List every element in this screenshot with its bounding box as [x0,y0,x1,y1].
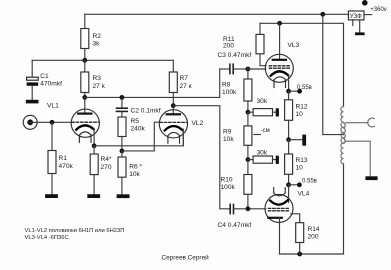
node top rail to output transformer center tap [320,12,325,17]
svg-text:200: 200 [308,234,319,241]
label 30k upper [257,98,268,105]
svg-text:R6 *: R6 * [129,164,142,171]
wire VL2 anode to C4 [173,106,230,209]
resistor R6 [118,151,126,194]
node VL2 anode / R7 [171,103,176,108]
svg-text:VL2: VL2 [192,120,204,127]
resistor R4 [90,146,98,194]
label 0.55v top [297,85,312,91]
label R2 3k [93,33,102,48]
svg-text:VL3-VL4 -6П36С: VL3-VL4 -6П36С [25,235,69,241]
label R12 10 [296,104,308,119]
wire top B+ rail [85,13,349,15]
svg-text:10: 10 [296,165,304,172]
wire 0.55v test point top [289,90,300,92]
svg-text:0.55в: 0.55в [297,85,312,91]
svg-text:VL1: VL1 [47,103,59,110]
resistor 30k lower (horizontal) [248,156,276,163]
label VL1 [47,103,59,110]
svg-text:C4 0.47mkf: C4 0.47mkf [218,222,252,229]
svg-text:200: 200 [223,43,234,50]
capacitor C2 [117,97,128,117]
svg-text:R8: R8 [222,82,231,89]
label +360v [370,7,387,13]
label R4* 270 [101,156,112,171]
label 30k lower [257,150,268,157]
resistor R14 [291,214,304,254]
label R14 200 [308,226,320,241]
label R9 10k [223,129,234,144]
note tube types [25,228,125,241]
svg-text:27 к: 27 к [180,83,192,90]
node VL4 cathode [286,182,291,187]
ground bar right of R12/R13 node [302,135,306,146]
svg-text:-см: -см [261,128,270,134]
ground below R4 [87,194,100,198]
node R12/R13 ground point [286,137,291,142]
svg-text:100k: 100k [221,184,236,191]
input jack X1 [23,115,37,129]
svg-text:30k: 30k [257,150,268,157]
label C1 470mkf [40,73,62,88]
svg-text:R12: R12 [296,104,308,111]
svg-text:R7: R7 [180,75,189,82]
svg-text:R9: R9 [223,129,232,136]
pentode VL3 [265,23,293,91]
label R13 10 [296,157,308,172]
label C2 0.1mkf [131,108,161,115]
node C4 / R10 / VL4 grid [246,206,251,211]
svg-text:VL3: VL3 [288,42,300,49]
label R3 27k [93,75,106,90]
triode VL2 [159,106,187,146]
label 0.55v bottom [302,179,317,185]
ground below C1 [26,100,39,104]
power filter box UZF [348,11,364,32]
capacitor C1 (electrolytic) [27,60,39,100]
ground below R6 [117,194,130,198]
resistor R8 [244,69,252,112]
svg-text:Сергеев Сергей: Сергеев Сергей [162,254,210,262]
label UZF [350,13,362,20]
svg-text:C1: C1 [40,73,49,80]
wire secondary bottom to ground [345,141,370,176]
resistor R2 [81,14,89,60]
svg-text:30k: 30k [257,98,268,105]
note author [162,254,210,262]
svg-text:R1: R1 [59,155,68,162]
svg-text:10: 10 [296,111,304,118]
svg-text:27 k: 27 k [93,83,106,90]
ground bar right of 30k lower [276,156,279,164]
svg-text:C2 0.1mkf: C2 0.1mkf [131,108,161,115]
resistor R12 [285,91,293,140]
svg-text:R4*: R4* [101,156,112,163]
svg-text:240k: 240k [131,126,146,133]
label R8 100k [222,82,237,97]
svg-text:C3 0.47mkf: C3 0.47mkf [218,52,252,59]
svg-text:R14: R14 [308,226,320,233]
node R9/R10/30k [246,157,251,162]
output connector [368,118,375,127]
svg-text:0.55в: 0.55в [302,179,317,185]
label R5 240k [131,118,146,133]
label R10 100k [221,177,236,192]
transformer T1 secondary winding [344,123,346,144]
svg-text:3k: 3k [93,41,101,48]
wire mid supply rail [32,59,173,61]
node R2/R3 junction [82,58,87,63]
label VL4 [298,191,310,198]
ground bar right of 30k upper [276,108,279,116]
bias input stub -cm [254,134,260,136]
wire secondary top to output [346,122,368,124]
label R6* 10k [129,164,142,179]
label C3 0.47mkf [218,52,252,59]
wire to side ground [289,139,303,141]
svg-text:VL1-VL2 половинки 6Н1П или 6Н2: VL1-VL2 половинки 6Н1П или 6Н23П [25,228,125,234]
wire 0.55v test point bottom [289,184,300,186]
wire VL3 anode to transformer primary top [260,23,344,106]
node R14 bottom [297,252,302,257]
resistor R11 (anode to grid feedback) [256,23,266,65]
svg-text:10k: 10k [223,136,234,143]
node VL1 cathode / R4 [92,143,97,148]
label VL3 [288,42,300,49]
wire UZF to +360v [364,14,372,16]
capacitor C3 [220,64,248,73]
wire VL4 anode to transformer primary bottom [280,164,344,254]
node R8/R9/30k [246,110,251,115]
label R7 27k [180,75,192,90]
svg-text:270: 270 [101,164,112,171]
node C3 / R8 / VL3 grid [246,67,251,72]
resistor R10 [244,160,252,209]
terminal dot +360v [362,0,368,6]
resistor R7 [169,60,177,105]
ground below UZF [355,32,365,35]
resistor R13 [285,140,293,185]
triode VL1 [71,97,99,145]
wire input to VL1 grid [30,121,71,123]
resistor R1 [48,122,56,194]
svg-text:470k: 470k [59,163,74,170]
svg-text:R13: R13 [296,157,308,164]
resistor R3 [81,60,89,97]
ground below R1 [45,194,58,198]
svg-text:УЗФ: УЗФ [350,13,362,20]
node R5/R6/VL2 grid [120,149,125,154]
node VL3 anode [277,21,282,26]
svg-text:10k: 10k [129,171,140,178]
transformer T1 primary winding [341,107,344,164]
label R11 200 [223,36,235,50]
label C4 0.47mkf [218,222,252,229]
capacitor C4 [230,204,266,213]
svg-text:470mkf: 470mkf [40,81,62,88]
ground below secondary [365,176,377,180]
svg-text:+360v: +360v [370,7,387,13]
node VL1 anode / R3 [82,95,87,100]
svg-text:R10: R10 [221,177,233,184]
node C2 top tap [120,95,125,100]
pentode VL4 (inverted) [265,185,293,254]
wire B+ drop to transformer center tap [323,14,344,134]
wire cathode bus VL1 to VL2 [94,132,183,146]
svg-text:VL4: VL4 [298,191,310,198]
node R1 tap on grid wire [50,120,55,125]
resistor 30k upper (horizontal) [248,109,276,116]
node VL3 cathode [286,89,291,94]
svg-text:100k: 100k [222,89,237,96]
svg-text:R5: R5 [131,118,140,125]
wire VL1 anode rail to C3 [85,69,220,97]
label VL2 [192,120,204,127]
resistor R5 [118,117,126,151]
resistor R9 [244,112,252,159]
svg-text:R3: R3 [93,75,102,82]
label R1 470k [59,155,74,170]
wire VL2 grid feed [122,122,160,151]
svg-text:R2: R2 [93,33,102,40]
wire C3 node to VL3 grid [248,68,266,70]
